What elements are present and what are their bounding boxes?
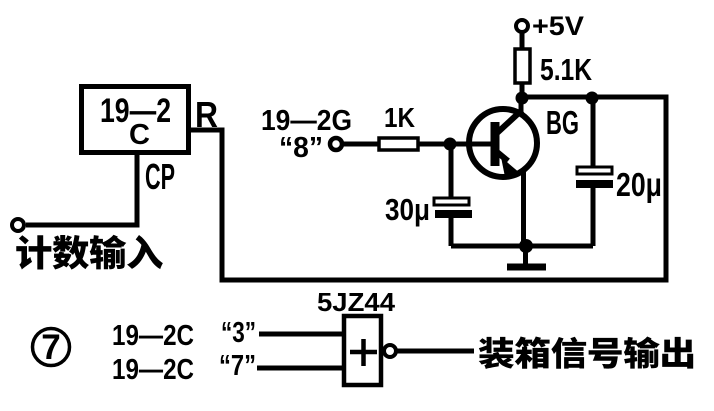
wire input 3 bbox=[259, 332, 342, 337]
svg-text:“3”: “3” bbox=[221, 317, 256, 349]
wire rail to C2 bbox=[591, 98, 596, 168]
ground bbox=[523, 246, 528, 265]
svg-text:19—2C: 19—2C bbox=[112, 320, 194, 352]
svg-text:“8”: “8” bbox=[279, 132, 323, 164]
svg-text:1K: 1K bbox=[384, 102, 415, 133]
resistor R2 5.1K bbox=[515, 49, 530, 83]
svg-text:+5V: +5V bbox=[532, 11, 584, 41]
svg-text:BG: BG bbox=[546, 104, 579, 141]
wire collector bbox=[519, 98, 524, 113]
terminal +5V bbox=[516, 20, 528, 32]
wire emitter rail bbox=[451, 244, 593, 249]
svg-text:5JZ44: 5JZ44 bbox=[317, 287, 396, 317]
relay K1 5JZ44 bbox=[344, 316, 381, 385]
node: collector rail left bbox=[516, 92, 529, 105]
figure number 7 bbox=[33, 329, 70, 366]
wire R1 to base bbox=[418, 142, 492, 147]
capacitor C2 20u bbox=[577, 167, 612, 174]
svg-text:5.1K: 5.1K bbox=[540, 52, 592, 87]
svg-text:7: 7 bbox=[41, 328, 60, 367]
svg-text:C: C bbox=[129, 119, 150, 151]
wire input to R1 bbox=[342, 142, 379, 147]
transistor Q1 BG bbox=[469, 109, 537, 177]
label 计数输入 (count input) bbox=[16, 235, 163, 270]
wire output bbox=[396, 349, 474, 354]
node: base junction bbox=[444, 138, 457, 151]
label 装箱信号输出 (packing signal output) bbox=[479, 337, 693, 369]
wire input 7 bbox=[257, 366, 342, 371]
counter box U1 "19-2 C" bbox=[82, 87, 189, 153]
wire base node down to C1 bbox=[449, 144, 454, 199]
wire R feedback: box right, down, bottom rail, right side up to collector rail bbox=[188, 97, 666, 280]
wire R2 to collector node bbox=[520, 83, 525, 98]
wire +5V to R2 bbox=[520, 32, 525, 49]
svg-text:19—2C: 19—2C bbox=[112, 354, 194, 386]
capacitor C1 30u bbox=[434, 198, 469, 205]
terminal: counting input bbox=[12, 219, 24, 231]
node: collector rail right bbox=[586, 92, 599, 105]
node: emitter junction bbox=[519, 239, 533, 253]
svg-text:CP: CP bbox=[145, 156, 175, 197]
svg-text:“7”: “7” bbox=[219, 350, 256, 382]
resistor R1 1K bbox=[379, 138, 418, 150]
wire CP input bbox=[26, 152, 137, 225]
svg-text:20μ: 20μ bbox=[616, 166, 662, 203]
terminal: input 8 bbox=[330, 138, 342, 150]
svg-text:30μ: 30μ bbox=[385, 192, 430, 227]
wire emitter bbox=[521, 168, 526, 246]
terminal: output bbox=[384, 345, 396, 357]
